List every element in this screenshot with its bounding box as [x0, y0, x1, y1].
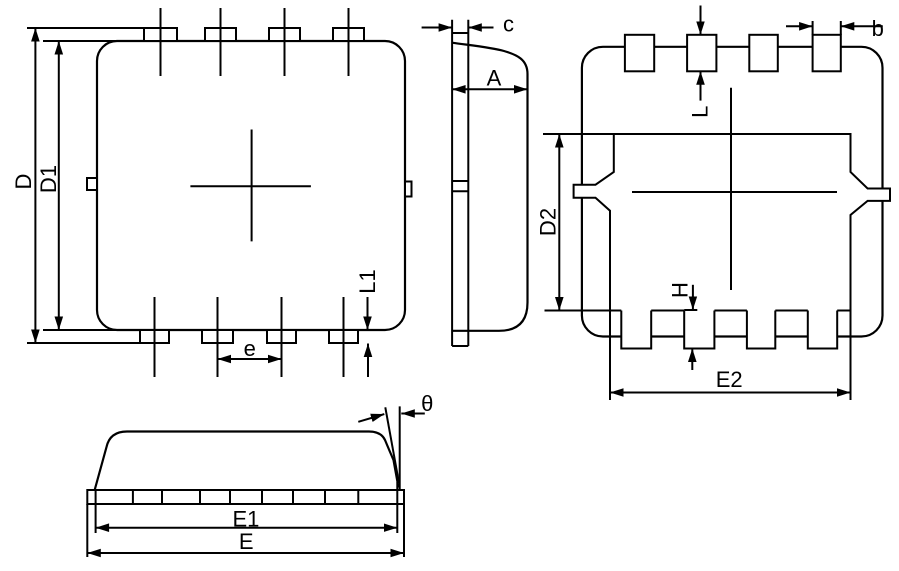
- dimension A: [452, 88, 527, 90]
- svg-text:b: b: [872, 16, 884, 41]
- label D: [11, 174, 36, 190]
- bottom lead 1 (top view): [140, 330, 169, 343]
- package body profile (front view): [95, 432, 399, 490]
- right side tab (top view): [405, 182, 412, 197]
- label b: [872, 16, 884, 41]
- svg-text:H: H: [668, 282, 693, 298]
- dimension L1: [367, 297, 370, 377]
- bottom view pad 2: [687, 35, 716, 72]
- bottom lead 2 (top view): [202, 330, 233, 343]
- dimension L: [700, 6, 702, 101]
- package body bottom view: [582, 47, 883, 337]
- bottom lead 4 (top view): [329, 330, 358, 343]
- center crosshair (bottom view): [632, 88, 837, 290]
- top lead 2 (top view): [205, 28, 236, 41]
- bottom view pad 4: [813, 35, 841, 72]
- theta slant reference line: [385, 407, 399, 483]
- label D1: [36, 165, 61, 193]
- dimension E: [87, 504, 404, 557]
- label L1: [355, 269, 380, 293]
- label e: [244, 336, 256, 361]
- dimension c: [422, 27, 494, 29]
- svg-text:θ: θ: [421, 391, 433, 416]
- dimension E1: [96, 482, 398, 533]
- svg-text:c: c: [503, 12, 514, 37]
- svg-text:A: A: [487, 66, 502, 91]
- bottom view pad 3: [749, 35, 778, 72]
- svg-text:E2: E2: [716, 367, 743, 392]
- label theta: [421, 391, 433, 416]
- bottom lead centerlines: [155, 297, 344, 377]
- tooth notch 3 (bottom view): [747, 311, 775, 349]
- exposed pad outline (bottom view): [574, 134, 890, 311]
- dimension D1: [43, 41, 120, 330]
- center crosshair (top view): [190, 130, 311, 242]
- top lead 1 (top view): [144, 28, 177, 41]
- package body profile (side view): [452, 43, 527, 331]
- top lead centerlines: [161, 8, 349, 76]
- side view lead frame strip: [452, 20, 468, 346]
- package body top view: [97, 41, 405, 330]
- svg-text:D2: D2: [536, 208, 561, 236]
- svg-text:e: e: [244, 336, 256, 361]
- tooth notch 2 (bottom view): [684, 311, 714, 349]
- svg-text:L1: L1: [355, 269, 380, 293]
- svg-text:D1: D1: [36, 165, 61, 193]
- top lead 3 (top view): [269, 28, 300, 41]
- svg-text:E1: E1: [232, 506, 259, 531]
- dimension D2: [543, 134, 615, 311]
- dimension E2: [610, 311, 851, 401]
- dimension H: [684, 285, 697, 370]
- label E: [239, 529, 254, 554]
- top lead 4 (top view): [333, 28, 364, 41]
- bottom lead 3 (top view): [267, 330, 296, 343]
- tooth notch 4 (bottom view): [808, 311, 837, 349]
- left side tab (top view): [87, 178, 97, 190]
- bottom view pad 1: [625, 35, 654, 72]
- svg-text:D: D: [11, 174, 36, 190]
- label E1: [232, 506, 259, 531]
- label c: [503, 12, 514, 37]
- tooth notch 1 (bottom view): [621, 311, 651, 349]
- svg-text:E: E: [239, 529, 254, 554]
- dimension theta: [358, 414, 425, 422]
- label A: [487, 66, 502, 91]
- dimension b: [786, 21, 883, 35]
- label E2: [716, 367, 743, 392]
- theta vertical reference line: [399, 406, 401, 489]
- svg-text:L: L: [688, 106, 713, 118]
- dimension D: [27, 28, 144, 343]
- dimension e: [218, 358, 282, 360]
- front view base strip: [87, 490, 404, 504]
- label D2: [536, 208, 561, 236]
- label H: [668, 282, 693, 298]
- label L: [688, 106, 713, 118]
